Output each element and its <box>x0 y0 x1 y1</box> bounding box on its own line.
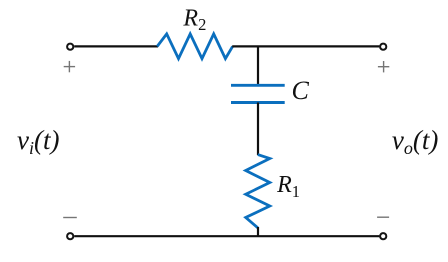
terminal circle input top <box>67 44 73 50</box>
plus sign input <box>64 61 75 72</box>
capacitor C <box>231 85 285 102</box>
resistor R2 <box>157 34 232 59</box>
svg-text:vo(t): vo(t) <box>392 125 438 158</box>
svg-text:C: C <box>292 76 310 105</box>
minus sign output <box>377 216 389 218</box>
wire R1 bottom stub <box>257 227 259 236</box>
wire bottom rail <box>74 235 379 237</box>
plus sign output <box>378 61 389 72</box>
wire top-left (input top rail) <box>74 45 158 47</box>
terminal circle input bottom <box>67 233 73 239</box>
wire top-right (node to output terminal) <box>232 45 379 47</box>
minus sign input <box>63 217 77 219</box>
terminal circle output top <box>380 44 386 50</box>
resistor R1 <box>246 155 270 228</box>
terminal circle output bottom <box>380 233 386 239</box>
svg-text:vi(t): vi(t) <box>17 125 59 158</box>
svg-text:R2: R2 <box>182 5 206 34</box>
wire capacitor top stub <box>257 46 259 85</box>
svg-text:R1: R1 <box>276 172 300 201</box>
wire capacitor bottom stub <box>257 103 259 156</box>
